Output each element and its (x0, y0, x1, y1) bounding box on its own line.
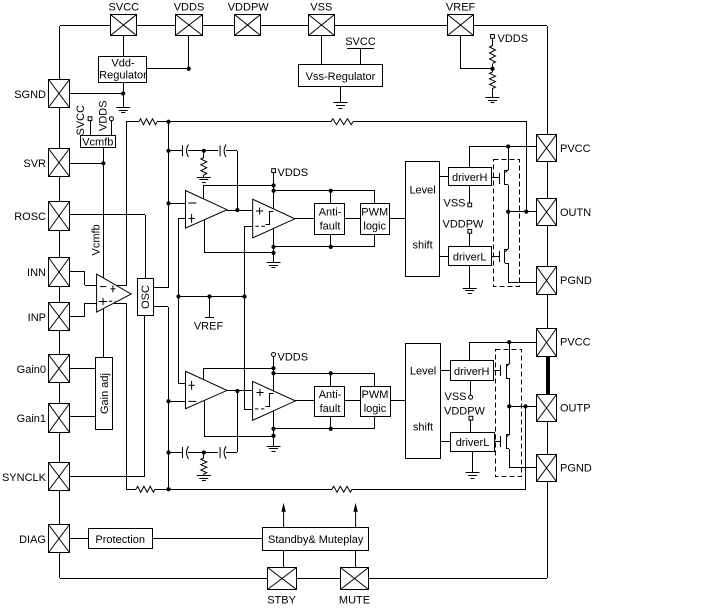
ground below Vdd-Regulator (116, 108, 130, 113)
wire ground rail to logic ch2 (274, 428, 375, 430)
wire OSC output upper (154, 287, 168, 289)
block PWM logic ch1 (361, 204, 390, 235)
svg-text:VDDPW: VDDPW (228, 2, 270, 14)
wire INN step2 (84, 272, 86, 285)
wire A2 VDDS rail (203, 368, 274, 370)
resistor feedback ch1 (331, 119, 353, 125)
wire ROSC down to OSC top (145, 215, 147, 278)
block Gain adj (96, 358, 113, 430)
wire Q1 source to OUTN node (508, 185, 510, 212)
wire input amp lower output down (126, 303, 128, 489)
wire INN step1 (70, 271, 85, 273)
wire VREF rail horizontal (178, 296, 244, 298)
wire PWM to Level shift ch1 (390, 218, 405, 220)
wire Level shift to driverL ch2 (441, 441, 450, 443)
wire top border (60, 25, 547, 27)
terminal VDDS ch2 (272, 353, 276, 357)
wire right border (547, 26, 549, 578)
wire VDDS pad down (188, 36, 190, 69)
resistor feedback ch2 (332, 486, 352, 492)
svg-text:SYNCLK: SYNCLK (2, 472, 47, 484)
wire to PGND ch2 (509, 467, 537, 469)
block driverH ch2 (451, 361, 494, 381)
svg-text:Anti-: Anti- (319, 389, 342, 401)
ground cap network ch2 (197, 476, 211, 481)
wire A2 ground rail (204, 436, 274, 438)
pad PGND ch1 (537, 267, 557, 295)
svg-text:VDDS: VDDS (498, 33, 529, 45)
wire INP step2 (84, 303, 86, 316)
svg-text:Anti-: Anti- (319, 207, 342, 219)
svg-text:VREF: VREF (446, 2, 476, 14)
wire A1 top power tap (203, 185, 205, 199)
wire driverH to VSS terminal ch1 (469, 186, 471, 203)
terminal VDDS ch1 (272, 169, 276, 173)
arrow control output left (281, 503, 285, 528)
block PWM logic ch2 (361, 387, 391, 417)
svg-text:SVCC: SVCC (109, 2, 140, 14)
wire Level shift to driverH ch2 (441, 370, 450, 372)
wire input amp upper output up (126, 122, 128, 286)
pad INN (49, 258, 70, 287)
wire A1 ground rail (204, 252, 274, 254)
wire driverL to ground ch1 (469, 265, 471, 288)
svg-text:VDDS: VDDS (98, 100, 110, 131)
svg-text:driverH: driverH (454, 366, 490, 378)
wire Gain1 to Gain adj (70, 416, 96, 418)
svg-text:fault: fault (320, 221, 341, 233)
wire Vdd-Regulator output to VDDS (147, 68, 189, 70)
svg-text:PVCC: PVCC (560, 337, 591, 349)
comparator K1 ch1 (253, 199, 295, 238)
block Level shift ch2 (406, 344, 441, 459)
wire C3 to C4 (188, 452, 218, 454)
wire VDDS ch1 down (273, 172, 275, 209)
wire DIAG to Protection (70, 538, 88, 540)
wire rail into Anti-fault bottom ch2 (330, 416, 332, 429)
block Vss-Regulator (299, 65, 383, 87)
transistor Q2 low-side ch1 (508, 212, 510, 249)
wire INP step1 (70, 316, 85, 318)
wire VREF pad down (460, 36, 462, 69)
block driverL ch2 (451, 433, 495, 452)
wire cap node to resistor (203, 151, 205, 158)
wire resistor to ground (203, 175, 205, 177)
pad SGND (49, 80, 70, 108)
svg-text:INP: INP (28, 312, 46, 324)
pad PVCC ch1 (537, 135, 557, 162)
pad INP (49, 303, 70, 331)
terminal VSS ch1 (468, 203, 472, 207)
terminal VDDPW ch1 (468, 229, 472, 233)
svg-text:Gain1: Gain1 (17, 413, 46, 425)
ground comparator ch1 (267, 263, 281, 268)
svg-text:MUTE: MUTE (339, 595, 370, 607)
wire to PGND ch1 (508, 282, 537, 284)
svg-text:PGND: PGND (560, 463, 592, 475)
wire feedback line ch1 (353, 121, 527, 123)
ground cap network ch1 (197, 178, 211, 183)
wire Q2 source down (508, 263, 510, 282)
wire SVCC to Vdd-Regulator (123, 36, 125, 56)
wire SVCC supply bar (347, 48, 374, 50)
wire cap node to resistor ch2 (203, 452, 205, 458)
wire to input resistor ch2 (126, 489, 136, 491)
capacitor C1 ch1 (183, 145, 189, 158)
svg-text:fault: fault (320, 403, 341, 415)
svg-text:driverL: driverL (453, 252, 487, 264)
wire rail into PWM top ch1 (374, 191, 376, 203)
svg-text:ROSC: ROSC (14, 211, 46, 223)
svg-text:OUTP: OUTP (560, 403, 591, 415)
comparator K2 ch2 (253, 381, 296, 420)
wire VREF terminal stub (209, 296, 211, 318)
ground below driverL ch1 (463, 289, 477, 294)
pad SVR (49, 149, 70, 177)
hysteresis symbol K2 (266, 394, 274, 407)
wire rail into Anti-fault top ch2 (330, 373, 332, 386)
wire rail into PWM top ch2 (374, 373, 376, 386)
wire PVCC to driverH ch1 (470, 146, 537, 148)
wire VREF to divider node (461, 68, 492, 70)
wire summing line ch2 (155, 489, 332, 491)
svg-text:Gain0: Gain0 (17, 364, 46, 376)
pad Gain1 (49, 404, 70, 433)
wire SVCC bar to Vss-Regulator (360, 48, 362, 65)
wire upper output bar (116, 285, 126, 287)
wire summing to A1 minus (168, 203, 186, 205)
pad OUTN (537, 199, 557, 226)
pad SVCC (111, 15, 137, 36)
block driverH ch1 (449, 168, 492, 186)
svg-text:Vcmfb: Vcmfb (82, 136, 113, 148)
wire SYNCLK up to OSC bottom (144, 315, 146, 477)
wire VREF terminal bar (205, 317, 214, 319)
terminal VSS ch2 (469, 395, 473, 399)
wire lower resistor to ground (492, 88, 494, 98)
svg-text:shift: shift (413, 422, 433, 434)
svg-text:driverL: driverL (456, 437, 490, 449)
svg-text:shift: shift (413, 240, 433, 252)
wire PVCC down into driverH ch2 (469, 342, 471, 361)
wire feedback line ch2 (352, 489, 526, 491)
wire to cap C3 (168, 452, 182, 454)
pad PGND ch2 (537, 455, 557, 482)
terminal VDDPW ch2 (469, 416, 473, 420)
capacitor C2 ch1 (220, 145, 226, 158)
wire rail into PWM bottom ch2 (374, 416, 376, 429)
wire lower output bar (114, 303, 126, 305)
wire left border (59, 26, 61, 578)
transistor Q3 high-side ch2 (509, 342, 511, 364)
svg-text:Protection: Protection (95, 534, 145, 546)
svg-text:logic: logic (363, 221, 386, 233)
pad VREF (448, 15, 474, 36)
block Anti-fault ch2 (315, 387, 345, 417)
wire summing node vertical ch2 (168, 307, 170, 489)
svg-text:VSS: VSS (310, 2, 332, 14)
svg-text:PWM: PWM (362, 389, 389, 401)
wire K1 minus to VREF rail (244, 226, 246, 296)
svg-text:Level: Level (410, 366, 436, 378)
svg-text:DIAG: DIAG (19, 534, 46, 546)
svg-text:Vdd-: Vdd- (111, 58, 135, 70)
wire rail into PWM bottom ch1 (374, 234, 376, 247)
wire C1 to C2 (188, 150, 218, 152)
svg-text:OUTN: OUTN (560, 207, 591, 219)
svg-text:Gain adj: Gain adj (99, 373, 111, 414)
wire K2 output to Anti-fault (295, 400, 315, 402)
svg-text:SVCC: SVCC (75, 105, 87, 136)
arrow control output right (353, 503, 357, 528)
wire rail into Anti-fault bottom ch1 (330, 234, 332, 247)
hysteresis symbol K1 (266, 212, 274, 225)
wire summing node vertical ch1 (168, 122, 170, 288)
wire Standby to STBY pad (283, 550, 285, 567)
output stage dashed box ch2 (496, 350, 522, 477)
wire OUTP node to pad (509, 406, 537, 408)
wire VREF rail vertical (178, 219, 180, 384)
pad VSS (309, 15, 335, 36)
op-amp U1 input stage (97, 274, 132, 312)
wire summing to A2 minus (168, 401, 186, 403)
resistor divider lower (490, 72, 496, 89)
wire Q4 source down (509, 449, 511, 468)
resistor cap node ch2 (201, 458, 207, 474)
wire C4 right (226, 452, 237, 454)
wire K1 ground tap (273, 228, 275, 262)
block Level shift ch1 (406, 162, 440, 277)
pad SYNCLK (49, 463, 70, 491)
wire Level shift to driverH ch1 (440, 176, 448, 178)
wire SVCC terminal to Vcmfb (90, 121, 92, 136)
pad DIAG (49, 525, 70, 553)
wire ROSC to OSC (70, 214, 145, 216)
wire node to lower resistor (492, 69, 494, 72)
wire bottom border (60, 578, 547, 580)
wire A1 output to comparator (227, 210, 253, 212)
pad OUTP (537, 395, 557, 422)
wire PWM to Level shift ch2 (390, 400, 405, 402)
wire ground rail to logic ch1 (274, 246, 375, 248)
wire Level shift to driverL ch1 (440, 256, 448, 258)
wire VDDS rail to logic ch1 (274, 190, 375, 192)
wire summing line ch1 (157, 121, 331, 123)
svg-text:Level: Level (409, 185, 435, 197)
wire K1 minus input (245, 226, 253, 228)
wire resistor to node (492, 64, 494, 69)
transistor Q4 low-side ch2 (509, 406, 511, 435)
wire Vss-Regulator to ground (340, 87, 342, 103)
svg-text:OSC: OSC (140, 285, 152, 309)
wire driverH to VSS terminal ch2 (470, 380, 472, 395)
resistor input ch2 (136, 486, 155, 492)
pad PVCC ch2 (537, 329, 557, 357)
wire VDDS terminal to Vcmfb (111, 121, 113, 136)
svg-text:VDDS: VDDS (278, 167, 309, 179)
wire VDDS ch2 down (273, 356, 275, 391)
wire VDDS terminal to resistor (492, 38, 494, 46)
wire SYNCLK to OSC (70, 476, 145, 478)
transistor Q1 high-side ch1 (508, 146, 510, 170)
svg-text:Regulator: Regulator (99, 70, 147, 82)
svg-text:SVR: SVR (23, 158, 46, 170)
wire to cap C1 (168, 150, 182, 152)
pad VDDS (176, 15, 203, 36)
wire VSS pad to Vss-Regulator (321, 36, 323, 65)
svg-text:PVCC: PVCC (560, 143, 591, 155)
wire thick PVCC-OUTP segment (546, 357, 550, 394)
svg-text:PWM: PWM (361, 207, 388, 219)
wire OUTN feedback vertical (526, 122, 528, 212)
wire amp to Gain adj (103, 309, 105, 358)
wire A1 bottom power tap (204, 220, 206, 253)
wire A2 output to comparator (227, 390, 253, 392)
wire SVR to Vcmfb node (70, 163, 103, 165)
ground below divider (486, 98, 500, 103)
svg-text:Vcmfb: Vcmfb (91, 224, 103, 255)
op-amp A2 integrator ch2 (186, 371, 228, 409)
wire caps to A1 output (237, 151, 239, 210)
wire OUTN node to pad (508, 211, 537, 213)
wire to input resistor ch1 (126, 121, 139, 123)
svg-text:VDDS: VDDS (278, 352, 309, 364)
resistor cap node ch1 (201, 158, 207, 176)
wire VDDPW terminal to driverL ch1 (469, 233, 471, 247)
pad STBY (268, 568, 297, 590)
ground below Vss-Regulator (334, 103, 348, 109)
wire caps to A2 output (237, 391, 239, 452)
svg-text:VDDPW: VDDPW (443, 219, 485, 231)
block Protection (89, 529, 153, 549)
block driverL ch1 (449, 247, 492, 266)
wire INN to amp (85, 285, 97, 287)
terminal VDDS of Vcmfb (110, 117, 114, 121)
wire Q3 source to OUTP node (509, 378, 511, 406)
wire Gain0 to Gain adj (70, 368, 96, 370)
wire resistor to ground ch2 (203, 474, 205, 476)
wire to integrator1 plus (178, 218, 186, 220)
wire Vdd-Regulator to ground (123, 82, 125, 108)
wire VREF rail to K2 minus (244, 296, 246, 409)
wire Vcmfb output down to input amp (103, 148, 105, 278)
wire A1 VDDS rail (203, 185, 274, 187)
pad Gain0 (49, 355, 70, 383)
wire K2 minus input (244, 409, 253, 411)
wire OUTP feedback vertical (525, 406, 527, 489)
svg-text:logic: logic (364, 403, 387, 415)
wire rail into Anti-fault top ch1 (330, 191, 332, 203)
resistor divider upper (490, 46, 496, 64)
svg-text:INN: INN (27, 267, 46, 279)
svg-text:VSS: VSS (444, 391, 466, 403)
wire SGND to regulator ground node (70, 93, 123, 95)
wire PVCC down into driverH ch1 (469, 146, 471, 167)
wire driverL to ground ch2 (472, 451, 474, 473)
block OSC (138, 279, 154, 316)
wire VDDPW terminal to driverL ch2 (470, 420, 472, 432)
capacitor C4 ch2 (220, 446, 226, 459)
svg-text:VREF: VREF (194, 321, 224, 333)
svg-text:PGND: PGND (560, 275, 592, 287)
op-amp A1 integrator ch1 (186, 191, 228, 229)
wire Anti-fault to PWM ch2 (345, 400, 360, 402)
svg-text:SVCC: SVCC (345, 36, 376, 48)
svg-text:Standby& Muteplay: Standby& Muteplay (268, 534, 364, 546)
output stage dashed box ch1 (494, 160, 520, 287)
block Anti-fault ch1 (315, 204, 345, 235)
wire K2 ground tap (273, 411, 275, 446)
wire A2 bottom power tap (204, 400, 206, 436)
svg-text:VDDPW: VDDPW (444, 406, 486, 418)
wire INP to amp (85, 303, 97, 305)
block Standby & Muteplay (263, 528, 369, 551)
svg-text:VDDS: VDDS (174, 2, 205, 14)
ground below driverL ch2 (466, 473, 480, 479)
block Vdd-Regulator (99, 57, 147, 83)
resistor input ch1 (139, 119, 157, 125)
terminal SVCC of Vcmfb (88, 117, 92, 121)
wire Anti-fault to PWM ch1 (345, 218, 360, 220)
wire Standby to MUTE pad (355, 550, 357, 567)
wire PVCC to driverH ch2 (470, 342, 537, 344)
svg-text:SGND: SGND (14, 89, 46, 101)
ground comparator ch2 (267, 447, 281, 452)
wire OSC output lower (154, 306, 168, 308)
svg-text:STBY: STBY (267, 595, 296, 607)
pad VDDPW (235, 15, 261, 36)
svg-text:Vss-Regulator: Vss-Regulator (306, 71, 376, 83)
pad ROSC (49, 202, 70, 231)
svg-text:driverH: driverH (452, 172, 488, 184)
svg-text:VSS: VSS (443, 198, 465, 210)
wire A2 top power tap (203, 368, 205, 380)
wire Protection to Standby (152, 538, 263, 540)
terminal VDDS top-right (491, 35, 495, 39)
wire to integrator2 plus (178, 383, 186, 385)
pad MUTE (341, 568, 369, 590)
capacitor C3 ch2 (183, 446, 189, 459)
block Vcmfb (81, 136, 116, 148)
wire VDDS rail to logic ch2 (274, 373, 375, 375)
wire K1 output to Anti-fault (295, 218, 315, 220)
wire C2 right (226, 150, 237, 152)
